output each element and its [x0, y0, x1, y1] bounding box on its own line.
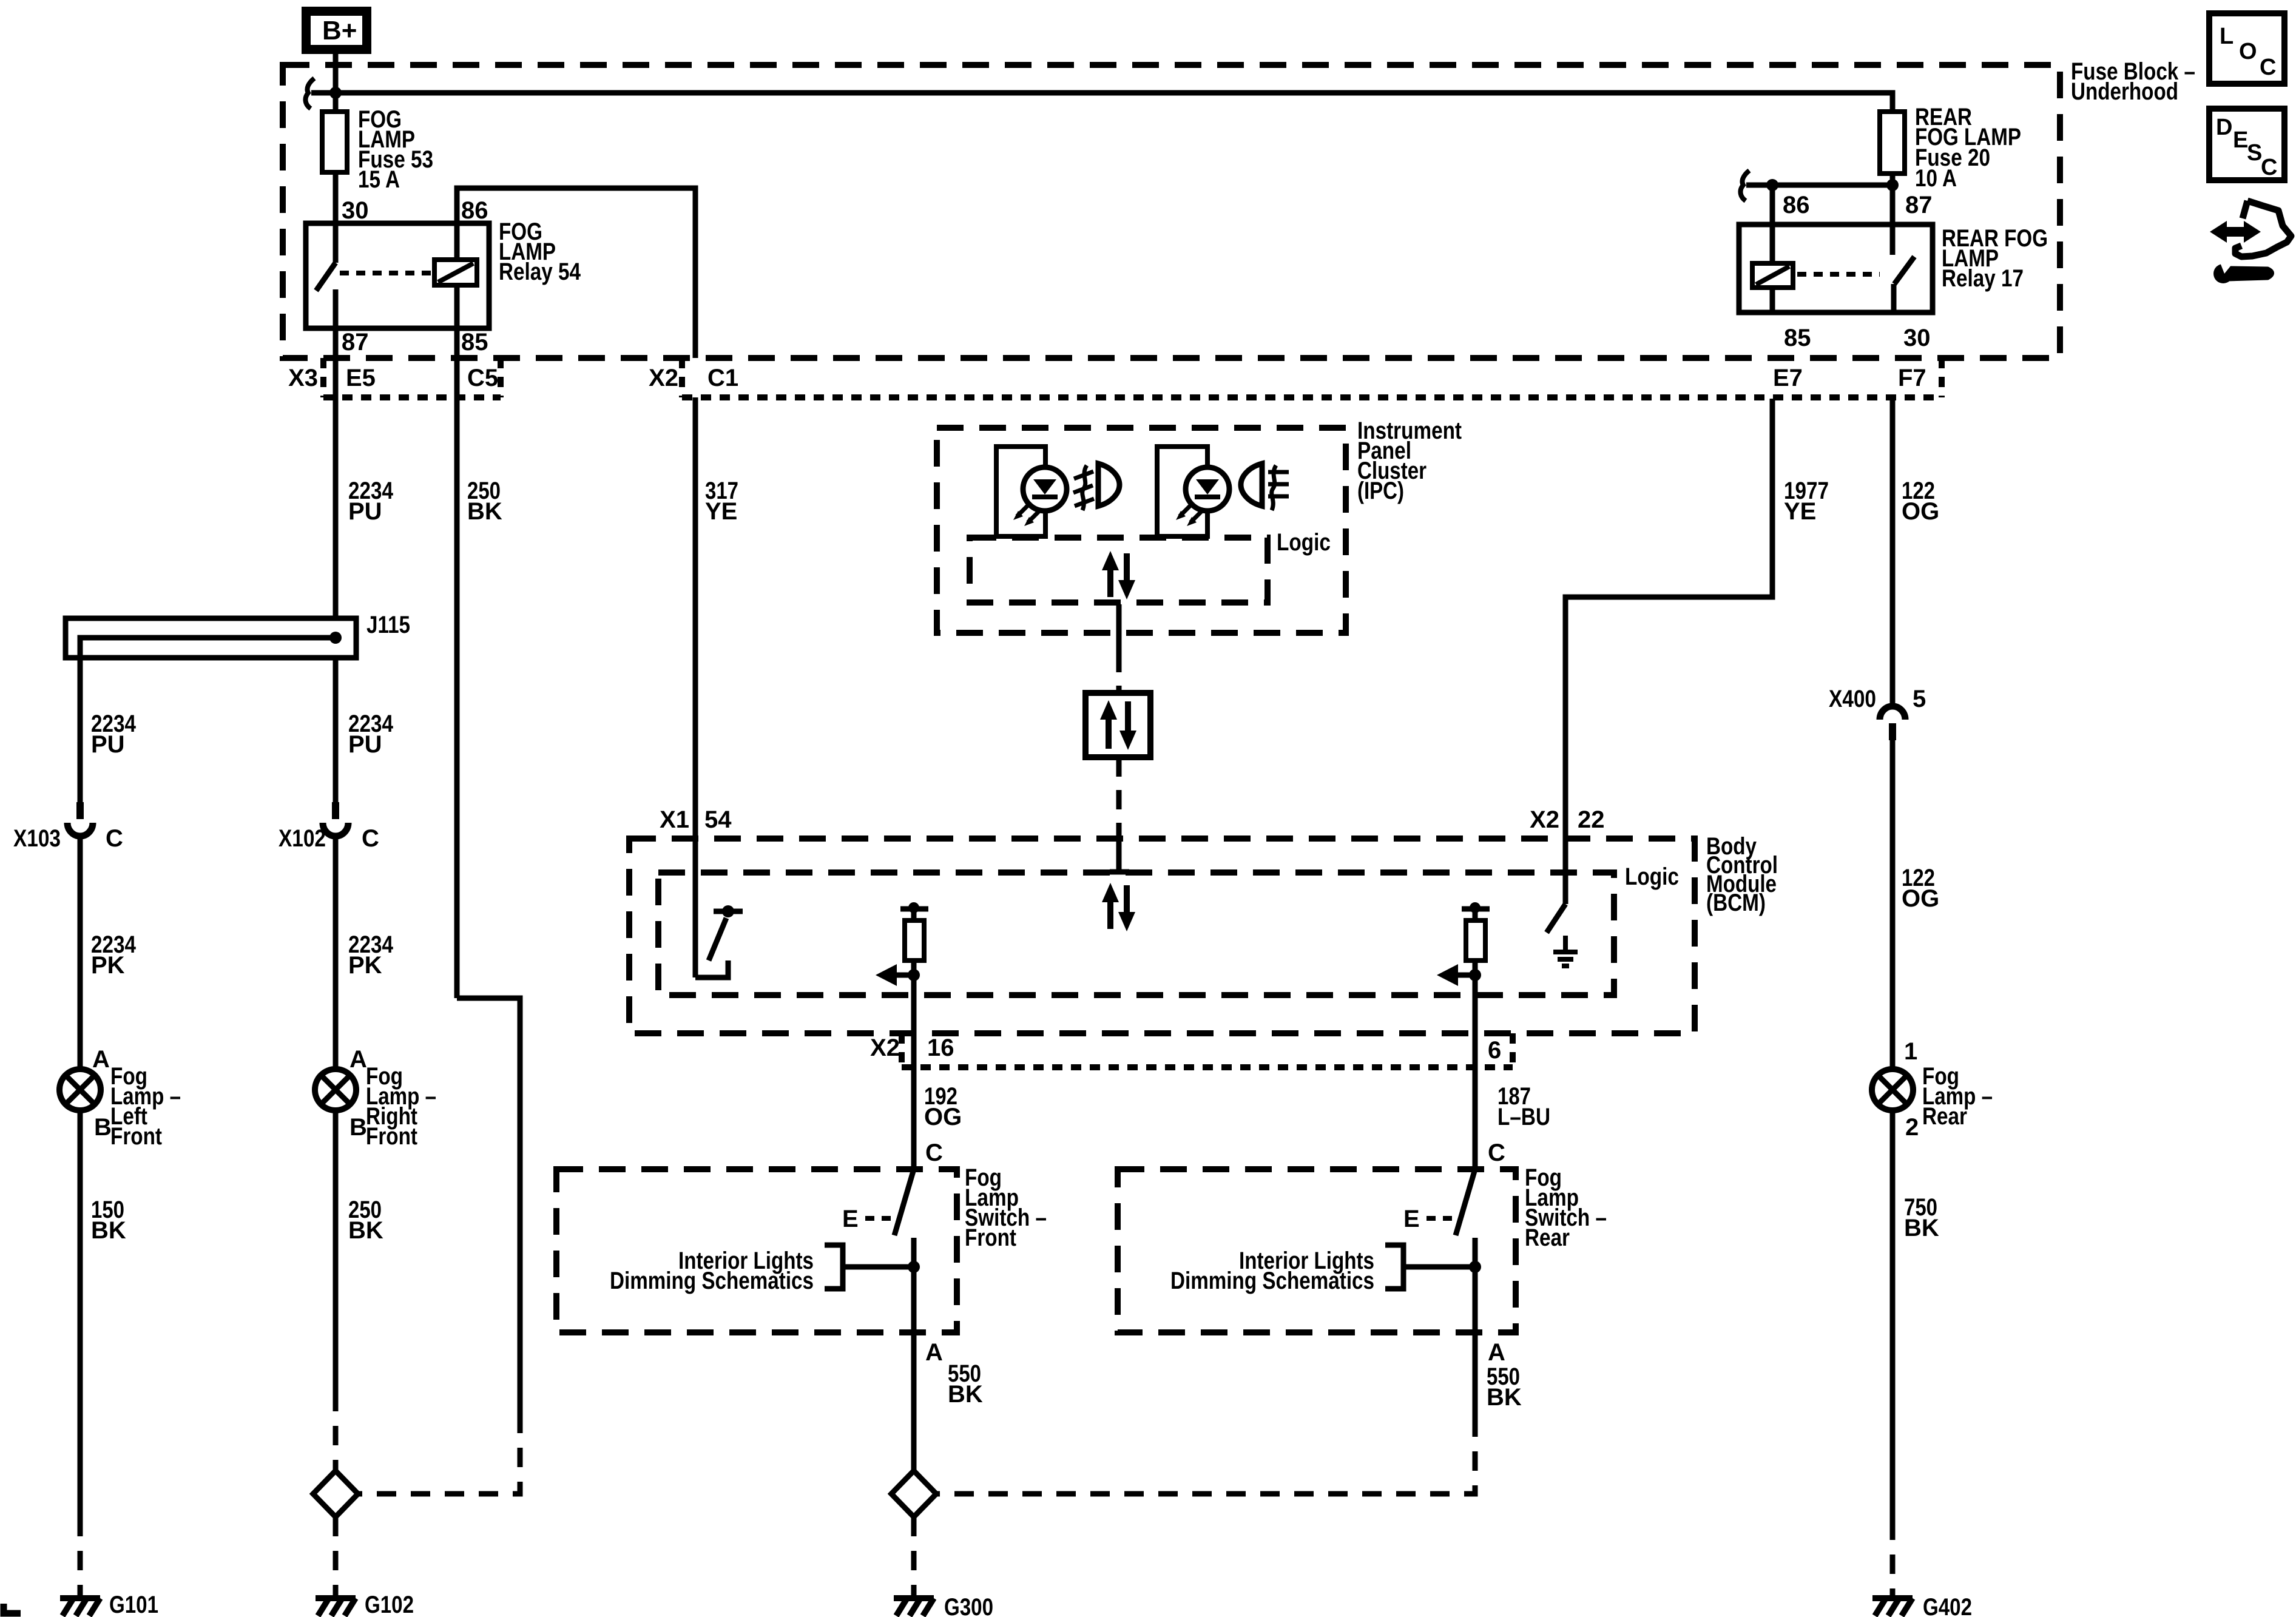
relay 54 switch output contact wire	[333, 289, 339, 328]
wire 250 BK below right lamp	[333, 1110, 339, 1392]
svg-text:X102: X102	[279, 825, 326, 852]
connector X103	[67, 802, 93, 836]
service icon outline	[2235, 201, 2291, 257]
wire 122 OG F7 to X400	[1890, 397, 1896, 706]
relay 17 REAR FOG LAMP box	[1739, 224, 1933, 312]
svg-text:54: 54	[704, 806, 732, 833]
hidden wire diamond to G300	[911, 1517, 917, 1596]
wire B+ to fuse 53	[333, 54, 339, 112]
svg-text:6: 6	[1488, 1037, 1501, 1064]
svg-text:Logic: Logic	[1277, 529, 1331, 556]
wire 192 OG BCM to front switch	[911, 975, 917, 1169]
svg-text:15 A: 15 A	[358, 166, 400, 193]
hidden wire 250 BK to diamond	[358, 1414, 520, 1494]
svg-text:E: E	[842, 1206, 859, 1232]
BCM internal ground	[1553, 936, 1578, 966]
wire X102 to right lamp	[333, 836, 339, 1069]
svg-text:L–BU: L–BU	[1497, 1104, 1550, 1130]
svg-text:Rear: Rear	[1525, 1224, 1570, 1251]
svg-text:PK: PK	[91, 952, 125, 979]
svg-text:87: 87	[1905, 192, 1933, 218]
svg-text:G102: G102	[365, 1592, 414, 1617]
svg-text:E7: E7	[1773, 365, 1803, 391]
current tap hook right	[1740, 170, 1749, 201]
wire J115 through	[333, 658, 339, 805]
IPC logic dashed box	[970, 538, 1268, 603]
service icon wrench	[2213, 257, 2272, 283]
BCM bottom connector dotted row	[902, 1033, 1513, 1067]
hidden wire to G402	[1890, 1521, 1896, 1596]
svg-text:BK: BK	[91, 1217, 126, 1244]
rear switch arm	[1456, 1169, 1475, 1235]
svg-text:C: C	[106, 825, 123, 852]
svg-text:E: E	[2233, 127, 2248, 153]
instrument panel cluster dashed box	[937, 428, 1346, 633]
svg-text:G101: G101	[109, 1592, 158, 1617]
svg-text:10 A: 10 A	[1915, 165, 1957, 192]
wire 150 BK below left lamp	[78, 1110, 83, 1517]
svg-text:Logic: Logic	[1625, 863, 1679, 890]
fog lamp right front	[315, 1069, 356, 1110]
wire 1977 YE from E7 to BCM pin 22	[1565, 399, 1772, 904]
connector row X3 left dotted box	[323, 358, 501, 397]
svg-text:87: 87	[342, 329, 369, 356]
wire 317 YE into BCM pin 54	[693, 397, 698, 977]
wire 550 BK rear	[1473, 1332, 1478, 1417]
ground G102	[316, 1598, 356, 1616]
relay 54 switch common wire	[333, 223, 339, 263]
interior lights dimming reference front	[610, 1245, 920, 1294]
svg-text:BK: BK	[348, 1217, 383, 1244]
interior lights dimming reference rear	[1170, 1245, 1481, 1294]
wire relay 86 to C1 connector	[457, 188, 695, 358]
svg-text:Relay 54: Relay 54	[499, 258, 581, 285]
front switch arm	[894, 1169, 914, 1235]
svg-text:30: 30	[342, 197, 369, 224]
svg-text:B+: B+	[322, 16, 357, 46]
svg-text:Front: Front	[110, 1123, 162, 1150]
svg-text:C1: C1	[707, 365, 738, 391]
relay 54 switch arm	[316, 263, 336, 291]
svg-text:A: A	[1488, 1339, 1505, 1366]
node dot 86 rear	[1766, 179, 1778, 191]
splice J115 box	[66, 618, 356, 658]
splice diamond left	[313, 1471, 358, 1517]
svg-text:YE: YE	[1784, 498, 1816, 525]
LOC legend box	[2209, 13, 2284, 84]
wire 750 BK	[1890, 1110, 1896, 1521]
front fog indicator icon	[1073, 464, 1119, 510]
svg-text:O: O	[2239, 39, 2257, 64]
svg-text:Relay 17: Relay 17	[1942, 265, 2024, 292]
edge artifact mark bottom-left	[4, 1604, 21, 1613]
wire 2234 PU from relay 87 down to J115	[333, 328, 339, 618]
serial data symbol box	[1086, 693, 1150, 757]
svg-text:2: 2	[1905, 1114, 1919, 1141]
BCM logic dashed box	[658, 873, 1614, 995]
wire fuse 20 bottom	[1890, 174, 1896, 185]
svg-text:Dimming Schematics: Dimming Schematics	[1170, 1268, 1374, 1294]
rear switch lower contact wire	[1473, 1238, 1478, 1332]
svg-text:B: B	[94, 1114, 112, 1141]
serial data box arrows	[1100, 700, 1136, 750]
svg-text:C: C	[362, 825, 379, 852]
serial data wire into BCM	[1116, 757, 1122, 826]
svg-text:C5: C5	[467, 365, 498, 391]
BCM input switch arm	[709, 918, 726, 960]
svg-text:C: C	[2260, 55, 2276, 80]
svg-text:86: 86	[1783, 192, 1810, 218]
fuse 20 REAR FOG LAMP	[1880, 112, 1905, 174]
front switch lower contact wire	[911, 1238, 917, 1332]
hidden wire diamond to G102	[333, 1517, 339, 1596]
svg-text:YE: YE	[705, 498, 737, 525]
BCM ground switch arm	[1547, 904, 1565, 933]
fog lamp switch rear dashed box	[1118, 1169, 1516, 1332]
svg-text:X3: X3	[288, 365, 318, 391]
svg-text:X2: X2	[1530, 806, 1559, 833]
svg-text:PK: PK	[348, 952, 382, 979]
BCM driver front output	[876, 902, 928, 986]
splice J115 internal wire	[80, 638, 336, 658]
wire 187 L-BU BCM to rear switch	[1473, 975, 1478, 1169]
relay 54 coil	[434, 260, 477, 285]
relay 17 switch common wire	[1890, 224, 1896, 255]
svg-text:1: 1	[1904, 1038, 1917, 1065]
wire 86 rear down to relay	[1770, 185, 1775, 224]
connector X102	[323, 802, 348, 836]
svg-text:F7: F7	[1898, 365, 1926, 391]
svg-text:X103: X103	[13, 825, 61, 852]
node junction dot at B+ bus	[329, 87, 342, 99]
svg-text:OG: OG	[1902, 885, 1939, 912]
wire B+ bus horizontal	[311, 93, 1893, 112]
serial data wire IPC to BCM	[1116, 604, 1122, 653]
BCM input switch L hook	[695, 960, 728, 977]
fog lamp rear	[1872, 1069, 1913, 1110]
svg-text:OG: OG	[924, 1104, 962, 1130]
wire 250 BK relay branch corner	[457, 998, 520, 1414]
svg-text:D: D	[2216, 115, 2232, 140]
wire 250 BK from relay 85 down	[454, 328, 460, 998]
wire X103 to left lamp	[78, 836, 83, 1069]
svg-text:Dimming Schematics: Dimming Schematics	[610, 1268, 814, 1294]
relay 54 FOG LAMP box	[306, 223, 489, 328]
svg-text:BK: BK	[948, 1381, 983, 1408]
svg-text:S: S	[2247, 140, 2262, 166]
connector X400	[1880, 706, 1905, 740]
IPC serial data arrows	[1102, 551, 1135, 599]
fog lamp switch front dashed box	[556, 1169, 957, 1332]
svg-text:A: A	[925, 1339, 943, 1366]
service icon double arrow	[2210, 221, 2261, 243]
svg-text:E: E	[1403, 1206, 1420, 1232]
svg-text:E5: E5	[346, 365, 376, 391]
relay 17 coil	[1752, 263, 1793, 288]
svg-text:BK: BK	[1904, 1215, 1939, 1241]
BCM input switch contact dot	[722, 905, 734, 917]
fog lamp left front	[59, 1069, 101, 1110]
relay 17 coil dashed link	[1797, 272, 1880, 277]
DESC legend box	[2209, 109, 2284, 180]
fuse block underhood dashed box	[283, 65, 2060, 358]
svg-text:Front: Front	[366, 1123, 417, 1150]
body control module dashed box	[629, 839, 1695, 1033]
relay 17 coil wires	[1770, 224, 1775, 263]
svg-text:PU: PU	[348, 498, 382, 525]
battery feed B+ symbol	[302, 7, 371, 54]
svg-text:B: B	[349, 1114, 367, 1141]
svg-text:5: 5	[1913, 686, 1926, 712]
hidden wire left lamp to G101	[78, 1517, 83, 1596]
svg-text:PU: PU	[91, 731, 125, 758]
svg-text:G300: G300	[944, 1594, 993, 1617]
connector row X2 long dotted line	[682, 358, 1942, 397]
svg-text:85: 85	[1784, 325, 1811, 351]
svg-text:J115: J115	[366, 612, 410, 638]
rear fog indicator icon	[1241, 464, 1289, 510]
relay 54 coil dashed link	[340, 271, 431, 275]
svg-text:(BCM): (BCM)	[1706, 890, 1766, 916]
BCM serial arrows	[1102, 883, 1135, 931]
hidden wire right lamp to splice diamond	[333, 1392, 339, 1471]
svg-text:X2: X2	[649, 365, 678, 391]
svg-text:A: A	[92, 1046, 110, 1073]
svg-text:BK: BK	[467, 498, 502, 525]
wire 87 rear down to relay	[1890, 185, 1896, 224]
ground G101	[60, 1598, 100, 1616]
svg-text:Underhood: Underhood	[2071, 78, 2178, 105]
svg-text:G402: G402	[1923, 1594, 1972, 1617]
node dot J115	[329, 632, 342, 644]
svg-text:30: 30	[1903, 325, 1931, 351]
rear fog indicator LED box	[1157, 447, 1207, 536]
BCM input switch contact bar	[714, 909, 743, 914]
wire 122 OG X400 to rear lamp	[1890, 740, 1896, 1069]
wire 550 BK front	[911, 1332, 917, 1471]
svg-text:BK: BK	[1487, 1384, 1522, 1411]
current tap hook left	[305, 78, 314, 109]
BCM driver rear output	[1437, 902, 1490, 986]
svg-text:C: C	[925, 1139, 943, 1166]
wire fuse 53 to relay 54 pin 30	[333, 172, 339, 223]
rear fog indicator LED	[1176, 467, 1229, 526]
wire J115 left branch down	[78, 658, 83, 805]
svg-text:X2: X2	[870, 1035, 900, 1061]
svg-text:Rear: Rear	[1922, 1103, 1967, 1130]
svg-text:X400: X400	[1829, 686, 1876, 712]
svg-text:85: 85	[461, 329, 488, 356]
svg-text:16: 16	[927, 1035, 954, 1061]
svg-text:L: L	[2220, 24, 2234, 49]
ground G402	[1872, 1598, 1913, 1616]
front fog indicator LED	[1013, 467, 1067, 526]
node dot 87 rear	[1886, 179, 1899, 191]
ground G300	[894, 1598, 934, 1616]
fuse 53 FOG LAMP	[322, 112, 347, 172]
svg-text:22: 22	[1578, 806, 1605, 833]
svg-text:Front: Front	[965, 1224, 1016, 1251]
svg-text:C: C	[1488, 1139, 1505, 1166]
svg-text:PU: PU	[348, 731, 382, 758]
svg-text:A: A	[349, 1046, 367, 1073]
splice diamond G300	[891, 1471, 936, 1517]
svg-text:(IPC): (IPC)	[1357, 478, 1404, 504]
svg-text:86: 86	[461, 197, 488, 224]
svg-text:C: C	[2261, 155, 2277, 180]
wire rear fuse to relay horizontal	[1746, 183, 1893, 188]
svg-text:X1: X1	[660, 806, 689, 833]
relay 17 switch output wire	[1891, 284, 1897, 312]
hidden wire 550 BK rear to diamond	[937, 1417, 1475, 1494]
svg-text:OG: OG	[1902, 498, 1939, 525]
relay 17 switch arm	[1894, 257, 1914, 284]
front fog indicator LED box	[996, 447, 1045, 536]
relay 54 coil wires pins 86/85	[454, 223, 460, 260]
